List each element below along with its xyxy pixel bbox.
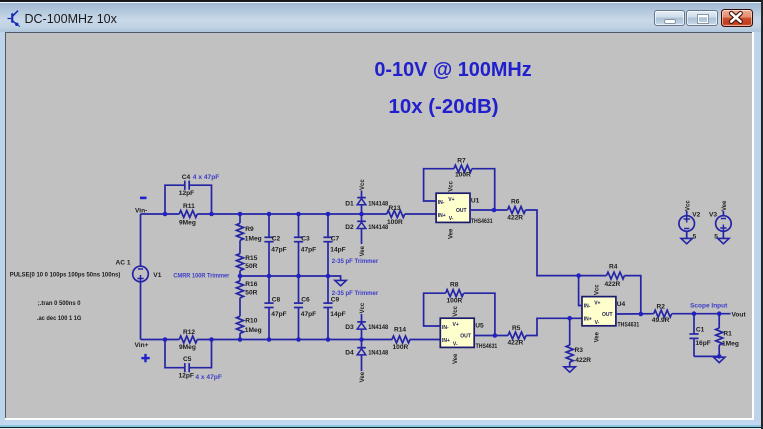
wire xyxy=(189,340,211,368)
power flag Vee xyxy=(360,371,366,382)
svg-text:U1: U1 xyxy=(471,197,480,204)
power flag Vcc xyxy=(685,200,691,217)
svg-text:47pF: 47pF xyxy=(301,311,316,318)
svg-text:V+: V+ xyxy=(453,322,459,328)
resistor R4 xyxy=(605,264,625,289)
power flag Vee xyxy=(449,228,455,239)
svg-text:1N4148: 1N4148 xyxy=(368,224,388,231)
svg-text:C8: C8 xyxy=(272,297,281,304)
svg-text:49.9R: 49.9R xyxy=(652,317,670,324)
resistor R8 xyxy=(446,282,464,305)
wire xyxy=(526,318,582,335)
junction xyxy=(238,337,243,342)
svg-text:2-35 pF Trimmer: 2-35 pF Trimmer xyxy=(332,258,379,265)
svg-text:C1: C1 xyxy=(696,327,705,334)
svg-text:C3: C3 xyxy=(301,236,310,243)
window title xyxy=(25,12,117,26)
resistor R14 xyxy=(392,327,410,352)
wire xyxy=(693,314,695,334)
svg-text:V-: V- xyxy=(449,216,454,222)
junction xyxy=(326,212,331,217)
wire U4 out xyxy=(616,313,654,315)
svg-text:Vee: Vee xyxy=(449,228,455,239)
svg-text:12pF: 12pF xyxy=(179,373,194,380)
svg-text:100R: 100R xyxy=(393,344,409,351)
junction xyxy=(209,337,214,342)
resistor R2 xyxy=(652,304,672,325)
svg-text:47pF: 47pF xyxy=(301,246,316,253)
junction xyxy=(326,274,331,279)
annotation plus sign xyxy=(141,354,149,362)
wire xyxy=(197,339,392,341)
junction xyxy=(359,212,364,217)
svg-text:C6: C6 xyxy=(301,297,310,304)
resistor R6 xyxy=(507,198,525,221)
junction xyxy=(492,208,497,213)
svg-text:R9: R9 xyxy=(245,226,254,233)
resistor R7 xyxy=(454,158,472,179)
svg-text:THS4631: THS4631 xyxy=(471,218,493,225)
wire xyxy=(694,355,719,357)
svg-text:Vee: Vee xyxy=(360,245,366,256)
wire xyxy=(165,185,185,214)
svg-text:D2: D2 xyxy=(345,224,354,231)
svg-text:16pF: 16pF xyxy=(695,340,710,347)
application icon xyxy=(6,8,26,28)
junction xyxy=(296,212,301,217)
wire xyxy=(410,339,441,341)
svg-text:C9: C9 xyxy=(331,297,340,304)
svg-text:CMRR 100R Trimmer: CMRR 100R Trimmer xyxy=(173,273,230,280)
svg-text:IN+: IN+ xyxy=(438,213,446,219)
wire U5 out xyxy=(474,335,508,337)
resistor R1 xyxy=(716,328,739,347)
wire xyxy=(165,340,185,368)
value label PULSE V1 xyxy=(10,271,121,278)
power flag Vee xyxy=(453,353,459,364)
svg-text:R3: R3 xyxy=(575,347,584,354)
wire xyxy=(693,338,695,356)
svg-text:2-35 pF Trimmer: 2-35 pF Trimmer xyxy=(332,290,379,297)
svg-text:Vcc: Vcc xyxy=(685,200,691,211)
resistor R5 xyxy=(508,325,527,347)
wire xyxy=(239,298,241,317)
resistor R9 xyxy=(237,223,262,242)
svg-text:Vcc: Vcc xyxy=(449,180,455,191)
spice directive .ac xyxy=(37,315,82,322)
junction xyxy=(567,316,572,321)
wire U1 out xyxy=(470,209,508,211)
svg-text:12pF: 12pF xyxy=(179,190,194,197)
svg-text:100R: 100R xyxy=(455,171,471,178)
wire xyxy=(361,214,363,221)
svg-text:C7: C7 xyxy=(331,236,340,243)
junction xyxy=(639,312,644,317)
ground xyxy=(718,238,729,243)
wire xyxy=(569,362,571,367)
wire xyxy=(722,231,724,239)
svg-text:422R: 422R xyxy=(508,340,524,347)
wire xyxy=(361,229,363,245)
junction xyxy=(692,311,697,316)
close button xyxy=(721,9,753,26)
svg-text:Vout: Vout xyxy=(732,312,747,319)
power flag Vcc xyxy=(453,305,459,316)
svg-text:.ac dec 100 1 1G: .ac dec 100 1 1G xyxy=(37,315,82,322)
svg-text:Vcc: Vcc xyxy=(453,305,459,316)
wire xyxy=(686,231,688,239)
diode D3 xyxy=(345,322,388,331)
minimize button xyxy=(654,10,686,27)
svg-text:R8: R8 xyxy=(450,282,459,289)
svg-text:IN-: IN- xyxy=(442,325,449,331)
annotation 4 x 47pF xyxy=(193,174,220,181)
svg-text:V+: V+ xyxy=(448,197,454,203)
svg-text:50R: 50R xyxy=(245,290,257,297)
svg-text:OUT: OUT xyxy=(456,208,467,214)
svg-text:;.tran 0 500ns 0: ;.tran 0 500ns 0 xyxy=(38,300,81,307)
svg-text:422R: 422R xyxy=(507,214,523,221)
junction xyxy=(576,273,581,278)
svg-text:R11: R11 xyxy=(183,203,195,210)
wire xyxy=(140,214,142,267)
svg-text:THS4631: THS4631 xyxy=(476,343,498,350)
junction xyxy=(717,311,722,316)
svg-text:0-10V @ 100MHz: 0-10V @ 100MHz xyxy=(374,59,531,81)
svg-text:Vee: Vee xyxy=(360,371,366,382)
voltage source V3 xyxy=(709,212,731,241)
junction xyxy=(209,212,214,217)
svg-text:100R: 100R xyxy=(387,219,403,226)
annotation Scope Input xyxy=(690,303,728,310)
wire xyxy=(526,210,579,276)
svg-text:5: 5 xyxy=(714,234,718,241)
svg-text:R4: R4 xyxy=(609,264,618,271)
svg-text:Vcc: Vcc xyxy=(360,302,366,313)
svg-text:50R: 50R xyxy=(245,263,257,270)
op-amp U4 xyxy=(582,297,640,329)
junction xyxy=(163,212,168,217)
wire Vin- rail xyxy=(141,213,180,215)
power flag Vcc xyxy=(449,180,455,191)
annotation title line 2 xyxy=(389,96,499,118)
wire xyxy=(239,240,241,253)
svg-text:Scope Input: Scope Input xyxy=(690,303,728,310)
resistor R12 xyxy=(179,329,197,351)
capacitor C1 xyxy=(689,327,710,348)
svg-text:D4: D4 xyxy=(345,350,354,357)
wire xyxy=(718,345,720,356)
op-amp U1 xyxy=(436,193,493,225)
svg-text:D3: D3 xyxy=(345,324,354,331)
wire xyxy=(361,355,363,371)
junction xyxy=(296,274,301,279)
resistor R10 xyxy=(237,316,262,334)
annotation 2-35 pF trimmer top xyxy=(332,258,379,265)
power flag Vcc xyxy=(360,179,366,198)
op-amp U5 xyxy=(440,318,497,350)
wire xyxy=(239,276,241,281)
power flag Vcc xyxy=(594,284,600,295)
svg-text:IN+: IN+ xyxy=(584,317,592,323)
power flag Vee xyxy=(594,331,600,342)
svg-text:14pF: 14pF xyxy=(330,246,345,253)
svg-text:Vee: Vee xyxy=(453,353,459,364)
annotation CMRR trimmer xyxy=(173,273,230,280)
svg-text:Vin+: Vin+ xyxy=(135,342,149,349)
resistor R3 xyxy=(566,345,591,364)
wire xyxy=(239,333,241,339)
svg-text:Vcc: Vcc xyxy=(360,179,366,190)
annotation 2-35 pF trimmer bottom xyxy=(332,290,379,297)
svg-text:C2: C2 xyxy=(272,236,281,243)
svg-text:V1: V1 xyxy=(153,272,161,279)
capacitor C2 xyxy=(264,214,286,276)
wire xyxy=(672,313,731,315)
svg-text:47pF: 47pF xyxy=(271,246,286,253)
ground xyxy=(335,280,346,285)
svg-text:5: 5 xyxy=(693,234,697,241)
power flag Vee xyxy=(360,245,366,256)
svg-text:IN-: IN- xyxy=(438,200,445,206)
wire xyxy=(405,213,436,215)
capacitor C6 xyxy=(294,276,316,340)
wire xyxy=(569,318,571,345)
svg-text:V-: V- xyxy=(453,341,458,347)
svg-text:R13: R13 xyxy=(389,205,401,212)
wire xyxy=(361,329,363,339)
junction xyxy=(267,274,272,279)
ground xyxy=(564,367,575,372)
wire xyxy=(361,205,363,214)
svg-text:R14: R14 xyxy=(394,327,406,334)
svg-text:1N4148: 1N4148 xyxy=(368,350,388,357)
svg-text:14pF: 14pF xyxy=(330,311,345,318)
svg-text:V-: V- xyxy=(595,320,600,326)
svg-text:1N4148: 1N4148 xyxy=(368,324,388,331)
wire xyxy=(140,281,142,339)
capacitor C5 xyxy=(179,356,194,379)
wire mid rail xyxy=(240,275,328,277)
svg-text:1Meg: 1Meg xyxy=(722,340,739,347)
svg-text:1Meg: 1Meg xyxy=(245,236,262,243)
wire U1 feedback xyxy=(424,169,454,201)
svg-text:R2: R2 xyxy=(657,304,666,311)
junction xyxy=(267,337,272,342)
svg-text:R7: R7 xyxy=(457,158,466,165)
svg-text:V2: V2 xyxy=(692,212,700,219)
wire xyxy=(239,271,241,276)
svg-text:1Meg: 1Meg xyxy=(245,327,262,334)
svg-text:U4: U4 xyxy=(617,301,626,308)
annotation 4 x 47pF xyxy=(195,374,222,381)
svg-text:V3: V3 xyxy=(709,212,717,219)
voltage source V1 xyxy=(116,260,162,282)
svg-text:47pF: 47pF xyxy=(271,311,286,318)
capacitor C3 xyxy=(294,214,316,276)
wire xyxy=(579,275,607,277)
svg-text:R12: R12 xyxy=(183,329,195,336)
svg-text:4 x 47pF: 4 x 47pF xyxy=(193,174,220,181)
junction xyxy=(163,337,168,342)
svg-text:1N4148: 1N4148 xyxy=(368,200,388,207)
ground xyxy=(681,238,692,243)
junction xyxy=(238,274,243,279)
svg-text:10x (-20dB): 10x (-20dB) xyxy=(389,96,499,118)
wire xyxy=(328,276,341,280)
svg-text:Vcc: Vcc xyxy=(594,284,600,295)
maximize button xyxy=(686,10,718,27)
junction xyxy=(717,354,722,359)
svg-text:AC 1: AC 1 xyxy=(116,260,131,267)
wire xyxy=(189,185,211,214)
svg-text:THS4631: THS4631 xyxy=(618,321,640,328)
diode D1 xyxy=(345,198,388,208)
resistor R11 xyxy=(179,203,197,226)
capacitor C9 xyxy=(323,276,345,340)
junction xyxy=(238,212,243,217)
resistor R16 xyxy=(237,281,258,298)
svg-text:R1: R1 xyxy=(723,330,732,337)
svg-text:4 x 47pF: 4 x 47pF xyxy=(195,374,222,381)
resistor R15 xyxy=(237,254,258,271)
svg-text:422R: 422R xyxy=(605,281,621,288)
node Vin- xyxy=(135,208,147,215)
svg-text:422R: 422R xyxy=(575,357,591,364)
wire xyxy=(361,340,363,348)
svg-text:9Meg: 9Meg xyxy=(179,219,196,226)
svg-text:U5: U5 xyxy=(475,322,484,329)
junction xyxy=(493,333,498,338)
diode D2 xyxy=(345,221,388,231)
wire xyxy=(472,169,495,210)
svg-text:C5: C5 xyxy=(183,356,192,363)
svg-text:9Meg: 9Meg xyxy=(179,344,196,351)
wire xyxy=(239,214,241,223)
svg-text:Vee: Vee xyxy=(722,200,728,211)
resistor R13 xyxy=(387,205,405,226)
svg-text:R10: R10 xyxy=(245,317,257,324)
svg-text:R16: R16 xyxy=(245,281,257,288)
wire xyxy=(197,213,387,215)
power flag Vee xyxy=(722,200,728,216)
wire U4 in- xyxy=(579,276,582,306)
annotation title line 1 xyxy=(374,59,531,81)
svg-text:R5: R5 xyxy=(512,325,521,332)
annotation minus sign xyxy=(140,197,147,200)
junction xyxy=(326,337,331,342)
svg-text:IN+: IN+ xyxy=(442,338,450,344)
capacitor C8 xyxy=(264,276,286,340)
wire xyxy=(625,276,641,314)
svg-text:R6: R6 xyxy=(511,198,520,205)
svg-text:OUT: OUT xyxy=(602,312,613,318)
node Vout xyxy=(732,312,747,319)
wire xyxy=(464,293,495,335)
wire xyxy=(718,314,720,329)
svg-text:OUT: OUT xyxy=(460,333,471,339)
capacitor C4 xyxy=(179,174,194,197)
power flag Vcc xyxy=(360,302,366,322)
svg-text:Vee: Vee xyxy=(594,331,600,342)
junction xyxy=(267,212,272,217)
svg-text:100R: 100R xyxy=(447,298,463,305)
spice directive .tran xyxy=(38,300,81,307)
svg-text:IN-: IN- xyxy=(584,304,591,310)
wire Vin+ rail xyxy=(141,339,180,341)
ground xyxy=(714,357,725,362)
junction xyxy=(296,337,301,342)
svg-text:R15: R15 xyxy=(245,255,257,262)
diode D4 xyxy=(345,348,388,357)
svg-text:V+: V+ xyxy=(594,301,600,307)
svg-text:PULSE(0 10 0 100ps 100ps 50ns: PULSE(0 10 0 100ps 100ps 50ns 100ns) xyxy=(10,271,121,278)
node Vin+ xyxy=(135,342,149,349)
voltage source V2 xyxy=(679,212,701,241)
junction xyxy=(359,337,364,342)
wire U5 feedback xyxy=(424,293,446,326)
capacitor C7 xyxy=(323,214,345,276)
svg-text:D1: D1 xyxy=(345,200,354,207)
svg-text:C4: C4 xyxy=(182,174,191,181)
